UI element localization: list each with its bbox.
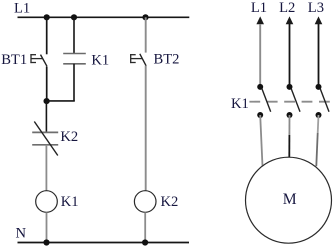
svg-text:BT1: BT1 <box>1 52 27 68</box>
wire: BT1 lower terminal down to junction <box>46 66 48 101</box>
svg-text:N: N <box>16 225 27 241</box>
wire: N neutral bus (bottom horizontal) <box>18 242 190 244</box>
wire: bus to BT1 upper terminal <box>46 17 48 54</box>
wire: K2 contact down to coil K1 <box>45 145 47 191</box>
node: junction dot on bus at BT2 branch <box>142 14 148 20</box>
wire: phase L2 arrow (up) <box>286 16 294 87</box>
wire: K1 contact down <box>73 64 75 101</box>
wire: pole 3 to motor <box>316 115 318 166</box>
contactor K1 pole 1: top terminal dot <box>257 84 263 90</box>
node: junction dot on neutral at coil K2 <box>142 239 148 245</box>
wire: coil K1 to neutral bus <box>46 212 48 242</box>
wire: pole 2 to motor <box>288 115 290 157</box>
svg-text:K2: K2 <box>60 129 78 145</box>
contact K2 (NC interlock, plate pair) <box>32 132 58 144</box>
wire: phase L3 arrow (up) <box>315 16 323 87</box>
wire: coil K2 to neutral bus <box>144 212 146 242</box>
node: junction dot on bus at BT1 branch <box>44 14 50 20</box>
contactor K1 pole 2: bottom terminal dot <box>287 112 293 118</box>
wire: L1 supply bus (top horizontal) <box>18 16 190 18</box>
contactor K1 main contacts: linkage dashed line <box>249 101 330 103</box>
wire: bus down to K1 holding contact <box>73 17 75 53</box>
wire: horizontal connector into junction <box>47 100 75 102</box>
svg-text:M: M <box>283 191 297 208</box>
contact K1 (holding, NO, plate pair) <box>63 54 86 64</box>
pushbutton BT2 (NO, blade) <box>140 54 146 66</box>
wire: junction down to K2 interlock contact <box>45 101 47 132</box>
svg-text:L2: L2 <box>279 0 295 16</box>
pushbutton BT2 actuator (E shape) <box>130 54 142 63</box>
coil K1 (contactor coil circle) <box>36 191 58 213</box>
wire: phase L1 arrow (up) <box>256 16 264 87</box>
contactor K1 pole 2: blade <box>291 89 300 112</box>
contactor K1 pole 2: top terminal dot <box>287 84 293 90</box>
contactor K1 pole 3: top terminal dot <box>316 84 322 90</box>
wire: BT2 lower terminal down to coil K2 <box>145 66 147 191</box>
contactor K1 pole 3: blade <box>320 89 329 112</box>
svg-text:K1: K1 <box>231 96 249 112</box>
node: junction dot on bus at K1 contact branch <box>71 14 77 20</box>
svg-text:L1: L1 <box>14 1 30 17</box>
wire: pole 1 to motor <box>260 115 262 166</box>
wire: bus down to BT2 upper terminal <box>145 17 147 52</box>
contact K2 NC slash <box>34 122 58 156</box>
pushbutton BT1 (NO, blade) <box>41 55 47 67</box>
contactor K1 pole 3: bottom terminal dot <box>316 112 322 118</box>
contactor K1 pole 1: bottom terminal dot <box>257 112 263 118</box>
node: junction dot (BT1 / K1 holding contact) <box>44 98 50 104</box>
svg-text:K1: K1 <box>91 53 109 69</box>
svg-text:L1: L1 <box>251 0 267 16</box>
motor M (circle) <box>246 157 332 243</box>
svg-text:K2: K2 <box>161 194 179 210</box>
contactor K1 pole 1: blade <box>262 89 271 112</box>
node: junction dot on neutral at coil K1 <box>43 239 49 245</box>
svg-text:BT2: BT2 <box>154 51 180 67</box>
pushbutton BT1 actuator (E shape) <box>30 54 42 63</box>
svg-text:K1: K1 <box>61 194 79 210</box>
svg-text:L3: L3 <box>308 0 324 16</box>
coil K2 (contactor coil circle) <box>134 191 156 213</box>
